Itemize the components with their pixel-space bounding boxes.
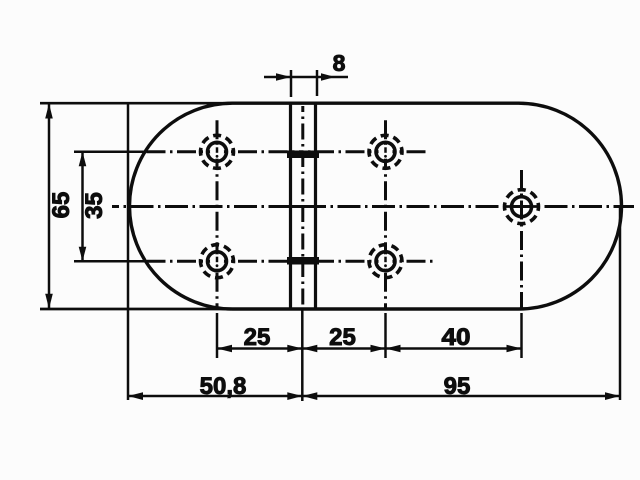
far right hole column center line (vertical chain) — [520, 170, 523, 310]
hole lower-right ring — [376, 252, 395, 271]
svg-text:50,8: 50,8 — [200, 373, 247, 400]
dim 8: extension line right — [316, 70, 319, 96]
dim 35: arrow bottom — [79, 247, 87, 262]
hole far-right ring — [512, 197, 532, 217]
dim 40: arrow at far right hole column — [507, 345, 522, 353]
hinge barrel right edge — [314, 104, 317, 308]
svg-text:40: 40 — [442, 324, 471, 351]
hinge knuckle joint upper — [287, 150, 319, 158]
dim 65: arrow bottom — [45, 294, 53, 309]
dim 50,8: arrow at left edge — [128, 392, 143, 400]
dim row 25/25/40: dimension line — [217, 347, 522, 350]
hole lower-left center tick — [216, 257, 219, 263]
plate outline (stadium shape) — [130, 103, 622, 309]
svg-text:95: 95 — [444, 373, 471, 400]
dim 25 left: arrow at hinge center — [287, 345, 302, 353]
hole upper-left: clear interior — [210, 145, 224, 159]
hole lower-left ring — [208, 252, 227, 271]
hinge pin center line (vertical chain) — [301, 106, 304, 310]
hole lower-left: clear interior — [210, 254, 224, 268]
hinge barrel left edge — [289, 104, 292, 308]
upper row center line (horizontal chain) — [74, 151, 146, 154]
svg-text:25: 25 — [329, 324, 356, 351]
right hole column center line (vertical chain) — [384, 116, 387, 310]
svg-text:8: 8 — [333, 50, 346, 76]
hole far-right crossing line — [506, 205, 537, 208]
dim 25 left: arrow at left hole column — [217, 345, 232, 353]
hole upper-right ring — [376, 142, 395, 161]
hole upper-left countersink dashed circle — [201, 135, 234, 168]
dim 35: arrow top — [79, 152, 87, 167]
svg-text:35: 35 — [81, 192, 108, 219]
hole upper-right: clear interior — [379, 145, 393, 159]
hole lower-right: clear interior — [379, 254, 393, 268]
hinge knuckle joint lower — [287, 257, 319, 265]
dim 95: arrow at right edge — [605, 392, 620, 400]
dim 35: dimension line — [81, 152, 84, 261]
hinge center extension line to bottom dims — [301, 310, 304, 401]
hole far-right countersink dashed circle — [505, 190, 539, 224]
svg-text:65: 65 — [48, 192, 75, 219]
hole lower-left countersink dashed circle — [201, 245, 234, 278]
middle center line crossing hinge barrel — [281, 205, 325, 208]
dim 8: extension line left — [290, 70, 293, 97]
dim 8: dimension line — [264, 76, 348, 79]
hole lower-right countersink dashed circle — [369, 245, 402, 278]
hole upper-left ring — [208, 142, 227, 161]
hole upper-left center tick — [216, 147, 219, 153]
middle center line (horizontal chain) — [112, 205, 634, 208]
top edge extension line (to 65 dim) — [40, 102, 240, 105]
hole upper-right center tick — [384, 147, 387, 153]
dim 8: arrow left — [276, 73, 291, 81]
hole upper-right countersink dashed circle — [369, 135, 402, 168]
dim row 50,8/95: dimension line — [128, 395, 620, 398]
left plate edge extension line — [127, 103, 130, 400]
dim 40: arrow at right hole column — [386, 345, 401, 353]
svg-text:25: 25 — [244, 324, 271, 351]
right plate edge extension line — [619, 207, 622, 400]
dim 25 right: arrow at right hole column — [371, 345, 386, 353]
hole lower-right center tick — [384, 257, 387, 263]
dim 8: arrow right — [321, 73, 335, 81]
dim 95: arrow at hinge center — [302, 392, 317, 400]
dim 25 right: arrow at hinge center — [302, 345, 317, 353]
far right hole column extension to dim row — [520, 313, 523, 358]
lower row center line (horizontal chain) — [74, 260, 147, 263]
dim 65: arrow top — [45, 104, 53, 119]
left hole column extension to dim row — [216, 313, 219, 358]
dim 65: dimension line — [48, 104, 51, 308]
right hole column extension to dim row — [384, 313, 387, 358]
dim 50,8: arrow at hinge center — [287, 392, 302, 400]
bottom edge extension line (to 65 dim) — [40, 308, 240, 311]
left hole column center line (vertical chain) — [216, 116, 219, 310]
